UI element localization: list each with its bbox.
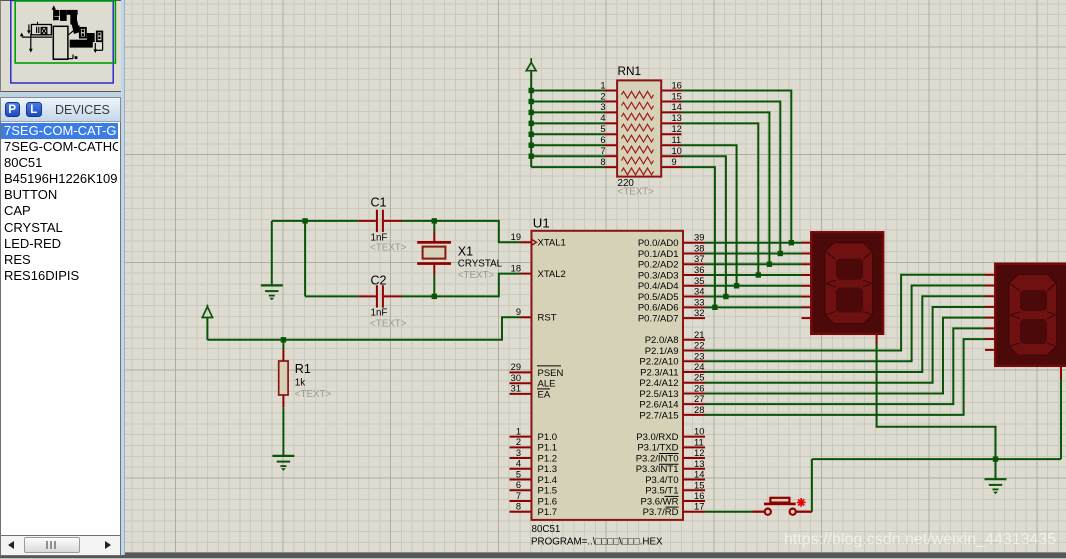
svg-text:P1.0: P1.0 <box>538 432 558 443</box>
svg-text:9: 9 <box>672 157 677 167</box>
svg-text:PSEN: PSEN <box>538 368 564 379</box>
svg-text:4: 4 <box>516 459 521 469</box>
svg-text:1nF: 1nF <box>371 307 388 318</box>
svg-text:10: 10 <box>672 146 682 156</box>
svg-text:37: 37 <box>694 253 704 264</box>
svg-text:1: 1 <box>600 80 605 90</box>
svg-text:CRYSTAL: CRYSTAL <box>458 259 503 270</box>
svg-text:35: 35 <box>694 275 704 286</box>
svg-text:2: 2 <box>516 437 521 447</box>
svg-text:C2: C2 <box>371 274 387 288</box>
svg-text:P1.2: P1.2 <box>538 453 558 464</box>
svg-text:31: 31 <box>511 384 521 394</box>
svg-text:12: 12 <box>694 447 704 458</box>
svg-text:26: 26 <box>694 382 704 393</box>
svg-text:3: 3 <box>600 102 605 112</box>
svg-text:P1.1: P1.1 <box>538 443 558 454</box>
svg-text:P2.5/A13: P2.5/A13 <box>639 389 678 400</box>
svg-text:80C51: 80C51 <box>532 524 561 535</box>
svg-text:39: 39 <box>694 232 704 243</box>
svg-text:P3.2/INT0: P3.2/INT0 <box>636 453 679 464</box>
svg-text:<TEXT>: <TEXT> <box>370 319 407 330</box>
svg-text:P0.6/AD6: P0.6/AD6 <box>638 303 679 314</box>
svg-text:23: 23 <box>694 350 704 361</box>
svg-text:1k: 1k <box>295 378 305 389</box>
svg-text:P0.5/AD5: P0.5/AD5 <box>638 292 679 303</box>
svg-text:X1: X1 <box>458 245 473 259</box>
svg-text:12: 12 <box>672 124 682 134</box>
svg-text:XTAL1: XTAL1 <box>538 238 566 249</box>
svg-text:13: 13 <box>672 113 682 123</box>
svg-text:P2.6/A14: P2.6/A14 <box>639 400 678 411</box>
svg-text:9: 9 <box>516 307 521 317</box>
svg-text:P2.1/A9: P2.1/A9 <box>645 346 679 357</box>
svg-text:25: 25 <box>694 372 704 383</box>
svg-text:R1: R1 <box>295 362 311 376</box>
svg-text:14: 14 <box>672 102 682 112</box>
svg-text:P2.7/A15: P2.7/A15 <box>639 410 678 421</box>
svg-text:RST: RST <box>538 313 557 324</box>
svg-text:XTAL2: XTAL2 <box>538 269 566 280</box>
svg-text:P2.3/A11: P2.3/A11 <box>640 367 678 378</box>
svg-text:P2.2/A10: P2.2/A10 <box>639 357 678 368</box>
svg-text:P0.2/AD2: P0.2/AD2 <box>638 260 679 271</box>
svg-text:2: 2 <box>600 91 605 101</box>
svg-text:P1.7: P1.7 <box>538 507 558 518</box>
svg-text:7: 7 <box>600 146 605 156</box>
svg-text:P0.1/AD1: P0.1/AD1 <box>638 249 679 260</box>
svg-text:P2.0/A8: P2.0/A8 <box>645 335 679 346</box>
svg-text:28: 28 <box>694 404 704 415</box>
svg-text:P3.0/RXD: P3.0/RXD <box>636 432 678 443</box>
svg-text:P0.0/AD0: P0.0/AD0 <box>638 238 679 249</box>
svg-text:P2.4/A12: P2.4/A12 <box>639 378 678 389</box>
svg-text:5: 5 <box>600 124 605 134</box>
svg-text:8: 8 <box>516 502 521 512</box>
svg-text:RN1: RN1 <box>618 64 642 78</box>
svg-text:P3.7/RD: P3.7/RD <box>643 507 679 518</box>
svg-text:16: 16 <box>694 490 704 501</box>
svg-text:10: 10 <box>694 426 704 437</box>
svg-text:24: 24 <box>694 361 704 372</box>
svg-text:C1: C1 <box>371 196 387 210</box>
svg-text:29: 29 <box>511 362 521 372</box>
svg-text:3: 3 <box>516 448 521 458</box>
svg-text:<TEXT>: <TEXT> <box>370 243 407 254</box>
svg-text:21: 21 <box>694 329 704 340</box>
svg-text:<TEXT>: <TEXT> <box>618 186 655 197</box>
svg-text:P3.5/T1: P3.5/T1 <box>645 486 678 497</box>
svg-text:17: 17 <box>694 501 704 512</box>
svg-text:4: 4 <box>600 113 605 123</box>
svg-text:P1.5: P1.5 <box>538 486 558 497</box>
svg-text:P3.4/T0: P3.4/T0 <box>645 475 678 486</box>
svg-text:30: 30 <box>511 373 521 383</box>
svg-text:EA: EA <box>538 389 551 400</box>
svg-text:15: 15 <box>694 479 704 490</box>
svg-text:11: 11 <box>694 436 704 447</box>
svg-text:PROGRAM=..\□□□□\□□□.HEX: PROGRAM=..\□□□□\□□□.HEX <box>531 536 663 547</box>
svg-text:ALE: ALE <box>538 379 556 390</box>
svg-text:16: 16 <box>672 80 682 90</box>
svg-text:<TEXT>: <TEXT> <box>295 389 332 400</box>
svg-text:34: 34 <box>694 286 704 297</box>
svg-text:1: 1 <box>516 426 521 436</box>
svg-text:15: 15 <box>672 91 682 101</box>
svg-text:6: 6 <box>516 480 521 490</box>
svg-text:P1.4: P1.4 <box>538 475 558 486</box>
svg-text:13: 13 <box>694 458 704 469</box>
svg-text:P3.6/WR: P3.6/WR <box>640 496 678 507</box>
svg-text:38: 38 <box>694 242 704 253</box>
svg-text:P0.3/AD3: P0.3/AD3 <box>638 270 679 281</box>
svg-text:P0.7/AD7: P0.7/AD7 <box>638 313 679 324</box>
svg-text:19: 19 <box>511 232 521 242</box>
svg-text:<TEXT>: <TEXT> <box>458 270 495 281</box>
svg-text:P1.3: P1.3 <box>538 464 558 475</box>
svg-text:P3.1/TXD: P3.1/TXD <box>637 443 678 454</box>
svg-text:P0.4/AD4: P0.4/AD4 <box>638 281 679 292</box>
svg-text:22: 22 <box>694 340 704 351</box>
svg-text:33: 33 <box>694 296 704 307</box>
svg-text:27: 27 <box>694 393 704 404</box>
svg-text:11: 11 <box>672 135 682 145</box>
svg-text:8: 8 <box>600 157 605 167</box>
svg-text:P3.3/INT1: P3.3/INT1 <box>636 464 679 475</box>
svg-text:36: 36 <box>694 264 704 275</box>
svg-text:5: 5 <box>516 469 521 479</box>
svg-text:U1: U1 <box>533 215 550 230</box>
svg-text:6: 6 <box>600 135 605 145</box>
svg-text:18: 18 <box>511 263 521 273</box>
svg-text:7: 7 <box>516 491 521 501</box>
svg-text:P1.6: P1.6 <box>538 496 558 507</box>
svg-text:14: 14 <box>694 469 704 480</box>
svg-text:32: 32 <box>694 307 704 318</box>
